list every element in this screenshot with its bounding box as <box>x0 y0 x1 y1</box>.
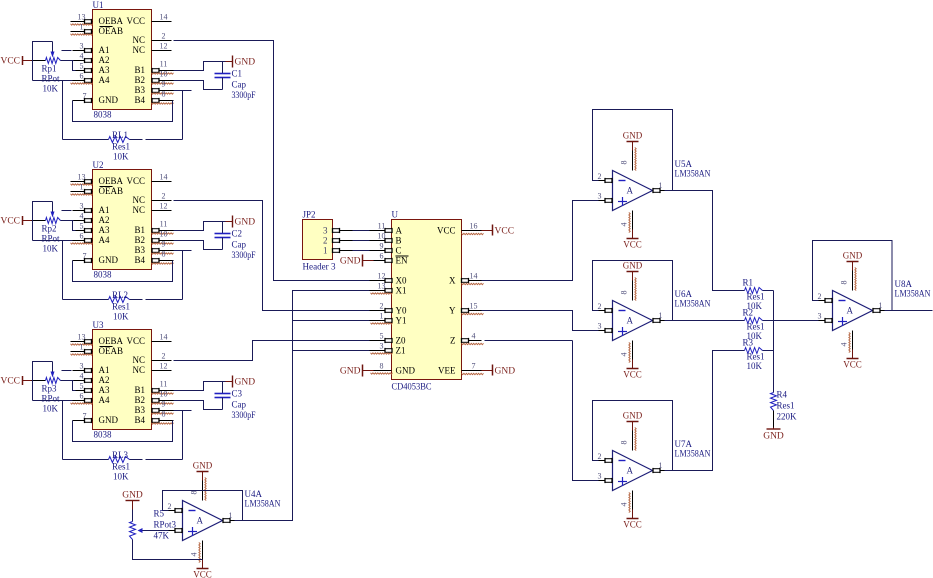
U pin 8 <box>370 370 392 372</box>
wire RL3 to B3 <box>130 459 143 461</box>
svg-text:GND: GND <box>340 367 361 377</box>
U pin 2 <box>370 310 392 312</box>
feedback wire U5A output to inverting input <box>593 110 673 191</box>
svg-text:3: 3 <box>598 472 602 481</box>
GND power port above U4A <box>197 471 209 473</box>
svg-text:GND: GND <box>763 432 784 442</box>
svg-text:3: 3 <box>80 42 84 51</box>
svg-text:2: 2 <box>380 302 384 311</box>
svg-text:R3: R3 <box>743 338 754 348</box>
svg-text:5: 5 <box>80 382 84 391</box>
svg-text:VCC: VCC <box>495 227 515 237</box>
svg-text:NC: NC <box>132 205 145 215</box>
svg-text:Y0: Y0 <box>396 306 407 316</box>
svg-text:A4: A4 <box>99 75 110 85</box>
U1 pin 3 A1 <box>73 50 93 52</box>
svg-text:10K: 10K <box>747 361 763 371</box>
svg-text:3: 3 <box>80 362 84 371</box>
svg-text:12: 12 <box>160 362 168 371</box>
svg-text:2: 2 <box>323 236 328 246</box>
svg-text:R2: R2 <box>743 308 754 318</box>
wire RL2 to B3 <box>130 299 143 301</box>
svg-text:1: 1 <box>323 246 328 256</box>
svg-text:A2: A2 <box>99 215 110 225</box>
U2 pin 1 OEAB <box>71 191 93 193</box>
GND power port above U5A <box>627 141 639 143</box>
svg-text:B2: B2 <box>134 235 145 245</box>
svg-text:11: 11 <box>160 380 168 389</box>
svg-text:GND: GND <box>193 461 213 471</box>
op-amp U5A LM358AN <box>613 171 653 211</box>
wire pot wiper loop <box>33 42 53 81</box>
svg-text:4: 4 <box>80 372 84 381</box>
U1 pin 10 B2 <box>152 80 174 82</box>
svg-text:3300pF: 3300pF <box>232 90 256 100</box>
svg-text:2: 2 <box>168 502 172 511</box>
wire summing junction <box>773 291 775 393</box>
wire stub near U2 A1 <box>62 210 72 212</box>
U2 pin 8 B4 <box>152 260 174 262</box>
svg-text:4: 4 <box>190 553 199 557</box>
svg-text:10K: 10K <box>113 312 129 322</box>
svg-text:B1: B1 <box>134 385 145 395</box>
wire B3 <box>174 410 192 412</box>
svg-text:A: A <box>627 466 634 476</box>
svg-text:1: 1 <box>80 343 84 352</box>
wire pot output to A2/A3 <box>61 60 74 62</box>
U1 pin 8 B4 <box>152 100 174 102</box>
wire U4A output to X1/Y1/Z1 <box>235 291 370 521</box>
wire wiper net to A4 <box>33 240 73 242</box>
JP2 pin 3 <box>333 230 353 232</box>
svg-text:U4A: U4A <box>245 489 263 499</box>
svg-text:NC: NC <box>132 365 145 375</box>
svg-text:NC: NC <box>132 355 145 365</box>
svg-text:3: 3 <box>80 202 84 211</box>
U2 pin 13 OEBA <box>71 181 93 183</box>
svg-text:1: 1 <box>659 311 663 320</box>
svg-text:U: U <box>392 210 399 220</box>
wire GND pin to B4 <box>73 261 173 282</box>
svg-text:15: 15 <box>470 302 478 311</box>
resistor RL3 <box>63 459 109 461</box>
svg-text:Y: Y <box>449 306 456 316</box>
svg-text:4: 4 <box>840 343 849 347</box>
svg-text:B2: B2 <box>134 395 145 405</box>
svg-text:VCC: VCC <box>843 360 862 370</box>
svg-text:4: 4 <box>472 332 476 341</box>
U2 pin 6 A4 <box>73 240 93 242</box>
wire stub near U3 A1 <box>62 370 72 372</box>
wire R4 to ground <box>773 411 775 428</box>
svg-text:RPot: RPot <box>42 394 61 404</box>
JP2 pin 1 <box>333 250 353 252</box>
IC U3 8038 <box>93 330 152 430</box>
svg-text:8: 8 <box>162 410 166 419</box>
U1 pin 6 A4 <box>73 80 93 82</box>
svg-text:C: C <box>396 246 402 256</box>
op-amp U6A LM358AN <box>613 301 653 341</box>
svg-text:4: 4 <box>620 223 629 227</box>
svg-text:7: 7 <box>472 362 476 371</box>
svg-text:8: 8 <box>380 362 384 371</box>
svg-text:2: 2 <box>598 172 602 181</box>
U7A pin 2 inverting input <box>599 460 613 462</box>
VCC power port below U4A <box>197 568 209 570</box>
svg-text:A: A <box>396 226 403 236</box>
U8A pin 1 output <box>873 310 885 312</box>
op-amp U7A LM358AN <box>613 451 653 491</box>
svg-text:9: 9 <box>162 80 166 89</box>
U8A pin 8 V+ <box>852 262 854 271</box>
svg-text:VCC: VCC <box>126 16 145 26</box>
svg-text:VCC: VCC <box>623 240 642 250</box>
U pin 12 <box>370 280 392 282</box>
svg-text:10K: 10K <box>43 404 59 414</box>
U5A pin 8 V+ <box>632 142 634 151</box>
U5A pin 2 inverting input <box>599 180 613 182</box>
svg-text:LM358AN: LM358AN <box>675 449 711 459</box>
U pin 5 <box>370 340 392 342</box>
svg-text:Res1: Res1 <box>747 292 765 302</box>
svg-text:6: 6 <box>380 252 384 261</box>
svg-text:Res1: Res1 <box>112 462 130 472</box>
svg-text:GND: GND <box>235 218 256 228</box>
svg-text:X: X <box>449 276 456 286</box>
svg-text:1: 1 <box>659 181 663 190</box>
svg-text:4: 4 <box>80 212 84 221</box>
wire pot output to A2/A3 <box>61 220 74 222</box>
wire U2 pin2 to Y0 <box>174 201 370 311</box>
resistor R3 <box>745 348 763 354</box>
svg-text:2: 2 <box>162 192 166 201</box>
svg-text:3: 3 <box>598 192 602 201</box>
U pin 10 <box>370 240 392 242</box>
svg-text:LM358AN: LM358AN <box>675 169 711 179</box>
svg-text:8: 8 <box>840 281 849 285</box>
capacitor C3 <box>222 382 224 394</box>
svg-text:1: 1 <box>80 183 84 192</box>
svg-text:10K: 10K <box>113 472 129 482</box>
svg-text:A2: A2 <box>99 375 110 385</box>
connector JP2 Header 3 <box>303 220 333 260</box>
IC U CD4053BC analog multiplexer <box>392 220 462 380</box>
svg-text:12: 12 <box>160 202 168 211</box>
svg-text:Res1: Res1 <box>747 322 765 332</box>
svg-text:RL3: RL3 <box>112 450 129 460</box>
wire pot wiper loop <box>33 202 53 241</box>
U pin 9 <box>370 250 392 252</box>
svg-text:GND: GND <box>396 366 416 376</box>
svg-text:220K: 220K <box>777 412 798 422</box>
svg-text:U5A: U5A <box>675 159 693 169</box>
U1 pin 13 OEBA <box>71 21 93 23</box>
svg-text:3: 3 <box>598 322 602 331</box>
svg-text:5: 5 <box>80 222 84 231</box>
resistor R4 <box>771 393 777 411</box>
U1 pin 1 OEAB <box>71 31 93 33</box>
svg-text:10K: 10K <box>43 84 59 94</box>
svg-text:14: 14 <box>160 13 168 22</box>
svg-text:A3: A3 <box>99 385 110 395</box>
GND power port for C2 <box>226 221 233 223</box>
svg-text:JP2: JP2 <box>303 210 316 220</box>
U7A pin 1 output <box>653 470 665 472</box>
svg-text:GND: GND <box>623 261 643 271</box>
U7A pin 3 non-inverting input <box>599 480 613 482</box>
U1 pin 7 GND <box>73 100 93 102</box>
svg-text:Rp2: Rp2 <box>42 224 57 234</box>
svg-text:RPot: RPot <box>42 234 61 244</box>
svg-text:9: 9 <box>162 240 166 249</box>
svg-text:LM358AN: LM358AN <box>675 299 711 309</box>
U1 pin 4 A2 <box>73 60 93 62</box>
U pin 16 <box>462 230 482 232</box>
U6A pin 8 V+ <box>632 272 634 281</box>
svg-text:16: 16 <box>470 222 478 231</box>
svg-text:RL1: RL1 <box>112 130 128 140</box>
U7A pin 8 V+ <box>632 422 634 431</box>
wire B3 <box>174 250 192 252</box>
svg-text:VCC: VCC <box>0 57 20 67</box>
wire U8A output <box>885 310 933 312</box>
svg-text:1: 1 <box>380 312 384 321</box>
svg-text:C1: C1 <box>232 69 243 79</box>
svg-text:GND: GND <box>122 491 143 501</box>
wire down to RL2 <box>62 241 64 300</box>
U6A pin 3 non-inverting input <box>599 330 613 332</box>
svg-text:12: 12 <box>378 272 386 281</box>
feedback wire U4A output to inverting input <box>163 491 243 521</box>
svg-text:12: 12 <box>160 42 168 51</box>
svg-text:2: 2 <box>162 32 166 41</box>
svg-text:U8A: U8A <box>895 279 913 289</box>
svg-text:8: 8 <box>620 161 629 165</box>
svg-text:VCC: VCC <box>0 217 20 227</box>
U1 pin 11 B1 <box>152 70 174 72</box>
U3 pin 10 B2 <box>152 400 174 402</box>
svg-text:7: 7 <box>83 92 87 101</box>
svg-text:8: 8 <box>162 90 166 99</box>
wire U3 pin2 to Z0 <box>174 341 370 361</box>
svg-text:10: 10 <box>378 232 386 241</box>
wire C1 to B2 <box>174 81 223 90</box>
GND power port below R4 <box>773 428 775 430</box>
U5A pin 3 non-inverting input <box>599 200 613 202</box>
svg-text:Z1: Z1 <box>396 346 406 356</box>
U4A pin 2 inverting input <box>169 510 183 512</box>
svg-text:U2: U2 <box>93 160 104 170</box>
svg-text:2: 2 <box>598 302 602 311</box>
U pin 1 <box>370 320 392 322</box>
svg-text:GND: GND <box>623 411 643 421</box>
svg-text:Res1: Res1 <box>112 302 130 312</box>
U pin 13 <box>370 290 392 292</box>
U3 pin 9 B3 <box>152 410 174 412</box>
op-amp U4A LM358AN <box>183 501 223 541</box>
U pin 4 <box>462 340 482 342</box>
U4A pin 1 output <box>223 520 235 522</box>
U1 pin 9 B3 <box>152 90 174 92</box>
svg-text:LM358AN: LM358AN <box>895 289 931 299</box>
svg-text:14: 14 <box>160 173 168 182</box>
U8A pin 3 non-inverting input <box>819 320 833 322</box>
IC U2 8038 <box>93 170 152 270</box>
svg-text:8038: 8038 <box>94 270 113 280</box>
svg-text:Header 3: Header 3 <box>303 262 337 272</box>
svg-text:A3: A3 <box>99 225 110 235</box>
svg-text:4: 4 <box>80 52 84 61</box>
svg-text:GND: GND <box>99 95 119 105</box>
svg-text:A3: A3 <box>99 65 110 75</box>
U2 pin 3 A1 <box>73 210 93 212</box>
wire B1 to GND <box>174 222 226 231</box>
svg-text:3: 3 <box>380 342 384 351</box>
svg-text:GND: GND <box>340 257 361 267</box>
svg-text:Res1: Res1 <box>747 352 765 362</box>
wire C3 to B2 <box>174 401 223 410</box>
svg-text:VCC: VCC <box>193 570 212 578</box>
svg-text:10K: 10K <box>113 152 129 162</box>
wire X output to U5A <box>482 201 599 281</box>
svg-text:1: 1 <box>659 461 663 470</box>
svg-text:2: 2 <box>818 292 822 301</box>
svg-text:11: 11 <box>160 60 168 69</box>
svg-text:GND: GND <box>235 58 256 68</box>
wire B3 <box>174 90 192 92</box>
U4A pin 8 V+ <box>202 472 204 481</box>
svg-text:GND: GND <box>623 131 643 141</box>
svg-text:OEAB: OEAB <box>99 186 124 196</box>
svg-text:13: 13 <box>78 173 86 182</box>
wire R5 wiper to U4A non-inverting input <box>143 530 169 532</box>
resistor RL2 <box>63 299 109 301</box>
GND power port at U pin 7 VEE <box>482 370 493 372</box>
svg-text:6: 6 <box>80 232 84 241</box>
U6A pin 4 V- <box>632 341 634 360</box>
svg-text:10: 10 <box>160 390 168 399</box>
U pin 6 <box>370 260 392 262</box>
wire pot output to A2/A3 <box>61 380 74 382</box>
svg-text:Rp3: Rp3 <box>42 384 58 394</box>
svg-text:Cap: Cap <box>232 80 247 90</box>
svg-text:RPot: RPot <box>42 74 61 84</box>
svg-text:GND: GND <box>99 255 119 265</box>
U5A pin 1 output <box>653 190 665 192</box>
svg-text:R5: R5 <box>154 509 165 519</box>
svg-text:U6A: U6A <box>675 289 693 299</box>
svg-text:2: 2 <box>162 352 166 361</box>
resistor RL1 <box>63 139 109 141</box>
svg-text:3300pF: 3300pF <box>232 250 256 260</box>
U3 pin 13 OEBA <box>71 341 93 343</box>
svg-text:VCC: VCC <box>126 176 145 186</box>
svg-text:NC: NC <box>132 195 145 205</box>
svg-text:GND: GND <box>495 367 516 377</box>
svg-text:10: 10 <box>160 70 168 79</box>
U pin 11 <box>370 230 392 232</box>
svg-text:B2: B2 <box>134 75 145 85</box>
svg-text:8: 8 <box>620 291 629 295</box>
U2 pin 14 VCC <box>152 181 172 183</box>
wire JP2 to U select inputs <box>353 230 370 232</box>
U3 pin 12 NC <box>152 370 172 372</box>
U8A pin 2 inverting input <box>819 300 833 302</box>
capacitor C1 <box>222 62 224 74</box>
U pin 7 <box>462 370 482 372</box>
wire VCC to pot <box>32 380 46 382</box>
svg-text:A2: A2 <box>99 55 110 65</box>
wire wiper net to A4 <box>33 400 73 402</box>
svg-text:Cap: Cap <box>232 400 247 410</box>
svg-text:U7A: U7A <box>675 439 693 449</box>
wire to U8A input <box>774 320 819 322</box>
svg-text:8: 8 <box>162 250 166 259</box>
wire pot wiper loop <box>33 362 53 401</box>
U7A pin 4 V- <box>632 491 634 510</box>
svg-text:X0: X0 <box>396 276 407 286</box>
svg-text:A1: A1 <box>99 45 110 55</box>
svg-text:1: 1 <box>80 23 84 32</box>
svg-text:VCC: VCC <box>126 336 145 346</box>
op-amp U8A LM358AN <box>833 291 873 331</box>
wire C2 to B2 <box>174 241 223 250</box>
svg-text:OEBA: OEBA <box>99 336 124 346</box>
svg-text:13: 13 <box>78 13 86 22</box>
U2 pin 12 NC <box>152 210 172 212</box>
potentiometer Rp1 <box>46 58 61 64</box>
U3 pin 1 OEAB <box>71 351 93 353</box>
svg-text:Rp1: Rp1 <box>42 64 57 74</box>
svg-text:4: 4 <box>620 353 629 357</box>
wire B1 to GND <box>174 62 226 71</box>
svg-text:A: A <box>197 516 204 526</box>
svg-text:8038: 8038 <box>94 430 113 440</box>
svg-text:OEBA: OEBA <box>99 16 124 26</box>
U2 pin 4 A2 <box>73 220 93 222</box>
svg-text:8: 8 <box>190 491 199 495</box>
GND power port for C3 <box>226 381 233 383</box>
U1 pin 5 A3 <box>73 70 93 72</box>
svg-text:B3: B3 <box>134 405 145 415</box>
IC U1 8038 <box>93 10 152 110</box>
GND power port above U6A <box>627 271 639 273</box>
U2 pin 2 NC <box>152 200 172 202</box>
svg-text:Cap: Cap <box>232 240 247 250</box>
U4A pin 3 non-inverting input <box>169 530 183 532</box>
feedback wire U6A output to inverting input <box>593 261 673 321</box>
svg-text:NC: NC <box>132 35 145 45</box>
VCC power port below U6A <box>627 368 639 370</box>
svg-text:X1: X1 <box>396 286 407 296</box>
resistor R2 <box>745 318 763 324</box>
svg-text:U1: U1 <box>93 0 104 10</box>
VCC power port below U5A <box>627 238 639 240</box>
U3 pin 6 A4 <box>73 400 93 402</box>
GND power port above U8A <box>847 261 859 263</box>
VCC power port below U7A <box>627 518 639 520</box>
svg-text:3: 3 <box>323 226 328 236</box>
wire U5A output <box>665 191 745 291</box>
U2 pin 5 A3 <box>73 230 93 232</box>
wire Z output to U7A <box>485 340 573 342</box>
svg-text:Z0: Z0 <box>396 336 406 346</box>
svg-text:4: 4 <box>620 503 629 507</box>
svg-text:14: 14 <box>160 333 168 342</box>
svg-text:13: 13 <box>378 282 386 291</box>
U5A pin 4 V- <box>632 211 634 230</box>
U1 pin 12 NC <box>152 50 172 52</box>
